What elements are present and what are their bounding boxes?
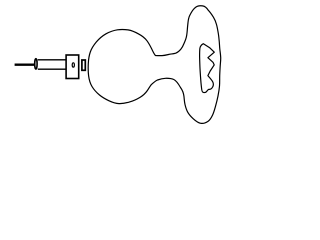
- cathode housing box: [66, 55, 79, 79]
- stem nub: [82, 60, 85, 70]
- stem tube: [38, 60, 66, 69]
- seal bead collar: [35, 59, 37, 69]
- anode zigzag electrode: [200, 44, 215, 93]
- cathode lead wire: [15, 64, 36, 66]
- aperture hole in box: [72, 63, 74, 67]
- glass envelope: bulb, waist and anode lobe: [88, 6, 221, 124]
